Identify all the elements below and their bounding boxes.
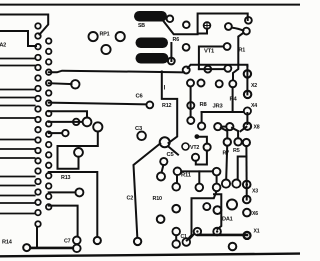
capacitor C6 pad [146, 102, 153, 109]
pad 190,105 [187, 102, 194, 109]
wire C2 long diagonal/vertical [134, 144, 161, 238]
pad 207,207 [203, 203, 210, 210]
wire staircase from C1 area [214, 194, 221, 229]
resistor R6 bar [136, 38, 169, 49]
switch SB bar [134, 11, 167, 22]
capacitor C2 pad bottom [134, 238, 141, 245]
wire R8 chain vertical [190, 87, 192, 118]
svg-text:X2: X2 [251, 83, 257, 89]
pad 228,26 [225, 23, 232, 30]
svg-text:X4: X4 [251, 103, 257, 109]
svg-text:R11: R11 [181, 173, 192, 179]
pad R5 [234, 138, 241, 145]
svg-text:JR3: JR3 [213, 104, 224, 110]
wire stub right of pad [199, 68, 224, 70]
svg-text:X8: X8 [254, 125, 260, 131]
terminal X3 bottom pad [243, 196, 251, 204]
wire diag to pad [189, 234, 194, 240]
wire top-left net [0, 15, 48, 35]
wire long horizontal net [49, 71, 184, 73]
pad 201,126 [198, 123, 205, 130]
terminal X2 bottom pad [244, 91, 251, 98]
wire module box left [162, 72, 177, 144]
svg-text:X6: X6 [252, 211, 258, 217]
wire to pad 79,192 [49, 191, 76, 193]
wire branch to R5 column [238, 157, 247, 180]
svg-text:C2: C2 [127, 196, 134, 202]
pad 248,20 [245, 17, 252, 24]
pad 246,31 [243, 28, 250, 35]
wire big horizontal 112 [202, 111, 244, 113]
wire VT1 top net [198, 14, 248, 34]
wire R13 net [49, 172, 98, 236]
terminal X2 top pad [244, 70, 251, 77]
pad 78,152 [74, 148, 83, 157]
wire left branch down [201, 112, 203, 122]
pad 232,204 [227, 200, 237, 210]
pad 232,246 [229, 243, 237, 251]
svg-text:R10: R10 [153, 196, 162, 202]
wires left edge stubs [0, 59, 36, 214]
IC DA2 right pad column [46, 38, 52, 209]
wire C1 link [175, 235, 177, 240]
wire R7 down to pad [226, 146, 227, 179]
wire link row 126 [221, 126, 226, 128]
wire below VT2 pad [196, 151, 207, 165]
svg-text:R6: R6 [173, 37, 180, 43]
wire DA1 box vertical [187, 199, 192, 241]
pad 76,122 [73, 119, 79, 125]
svg-text:R1: R1 [239, 48, 246, 54]
pad 176,208 [172, 205, 180, 213]
wire branch down [198, 171, 200, 183]
pad 186,47 [183, 44, 190, 51]
capacitor C3 pad [137, 132, 146, 141]
board bottom border [0, 254, 300, 257]
pad 219,84 [216, 80, 223, 87]
svg-text:R12: R12 [162, 103, 171, 109]
pad R14 [23, 244, 30, 251]
pad 217,210 [214, 206, 222, 214]
terminal X3 top pad [243, 181, 251, 189]
wire third pad down [245, 146, 247, 180]
wire to C6 pad [49, 103, 146, 105]
wire net to X2 top [188, 65, 248, 68]
wire zigzag from pad 98,127 [58, 132, 98, 169]
svg-text:R7: R7 [223, 151, 230, 157]
pad VT1 right [224, 43, 231, 50]
wire R4 vertical to X4 row [232, 87, 234, 112]
pad 186,242 [183, 238, 191, 246]
svg-text:X1: X1 [254, 229, 260, 235]
pad long net end [183, 67, 190, 74]
pad 226,184 [222, 180, 230, 188]
wire R6 vertical [170, 43, 172, 61]
svg-text:C7: C7 [64, 239, 71, 245]
pad right of SB [167, 15, 174, 22]
wire X4 to X8 link [246, 113, 248, 124]
pad 190,83 [187, 80, 194, 87]
pad 246,142 [243, 139, 250, 146]
capacitor C5 pad b [157, 173, 165, 181]
svg-text:X3: X3 [252, 189, 258, 195]
capacitor C7 pad bottom [73, 245, 81, 253]
capacitor C5 pad a [160, 158, 167, 165]
pad 217,231 [213, 228, 221, 236]
svg-text:R5: R5 [233, 148, 240, 154]
wire VT1 net [199, 47, 223, 70]
svg-text:C5: C5 [167, 152, 175, 158]
pad 87,122 [83, 118, 92, 127]
wire X3 link [246, 181, 248, 200]
wire C5 link [162, 165, 164, 173]
pad 161,219 [157, 215, 165, 223]
pad 199,187 [196, 184, 204, 192]
pad 201,83 [198, 80, 205, 87]
wire from dot to pad [199, 137, 207, 144]
svg-text:DA1: DA1 [222, 217, 233, 223]
pad 176,187 [172, 183, 180, 191]
svg-text:R13: R13 [61, 175, 70, 181]
wire bottom thick trace [31, 247, 73, 250]
terminal X1 pad [244, 232, 251, 239]
IC DA2 left pad column [35, 23, 41, 227]
transistor VT2 circle [182, 143, 189, 150]
wire R5 stub up [232, 128, 238, 138]
svg-text:DA2: DA2 [0, 43, 6, 49]
capacitor C7 pad top [73, 237, 81, 245]
pad 98,127 [93, 122, 102, 131]
pad R7 [224, 138, 231, 145]
svg-text:VT2: VT2 [190, 145, 199, 151]
terminal X8 pad [244, 123, 251, 130]
svg-text:C1: C1 [181, 234, 188, 240]
pad 228,68 [225, 65, 232, 72]
pad R6 bottom with cross [168, 58, 175, 65]
wire to pad 87,122 [49, 111, 87, 117]
board top border [0, 4, 300, 6]
wire to pad 65,133 [49, 132, 62, 134]
wire from IC bottom pad down [36, 227, 38, 247]
pad 75,84 [71, 80, 79, 88]
svg-text:R8: R8 [200, 102, 208, 108]
svg-text:RP1: RP1 [100, 31, 110, 37]
wire R11 vertical [176, 175, 178, 183]
trimmer RP1 pad 3 [101, 45, 110, 54]
svg-text:SB: SB [138, 23, 145, 29]
wire X2 link [246, 66, 248, 94]
capacitor C5 big pad [160, 137, 170, 147]
pad with cross 207,25 [204, 22, 211, 29]
svg-text:C6: C6 [136, 94, 144, 100]
pad 79,192 [75, 188, 83, 196]
wire C5 diagonal [168, 146, 178, 154]
wire row 122 [49, 121, 82, 123]
wire 216 vertical [216, 176, 218, 184]
wire R7 stub up [221, 128, 228, 139]
pad R13 bottom [94, 237, 101, 244]
wire DA1 box [192, 192, 217, 199]
pad 216,171 [213, 168, 221, 176]
terminal X6 pad [243, 209, 251, 217]
pad 197,231 [194, 228, 201, 235]
terminal X4 pad [244, 107, 251, 114]
capacitor C1 pad bottom [172, 240, 180, 248]
wire curve to pad 246,31 [232, 28, 244, 31]
wire X1 thick trace [198, 234, 247, 237]
pad VT2 right [204, 144, 211, 151]
pad 190,120 [187, 117, 194, 124]
wire row 171 [181, 170, 212, 172]
pad 195,157 [192, 154, 199, 161]
pad 217,126 [214, 123, 221, 130]
wire box to C7 [49, 206, 78, 237]
trimmer RP1 pad 1 [89, 32, 98, 41]
wire R1 vertical [233, 33, 244, 80]
pad node [183, 22, 190, 29]
pad R11 top [174, 168, 182, 176]
via solid dot [195, 134, 200, 139]
capacitor C1 pad top [172, 228, 180, 236]
trimmer RP1 pad 2 [116, 32, 125, 41]
pad 207,69 [204, 66, 211, 73]
pad 232,84 [229, 80, 236, 87]
svg-text:R14: R14 [2, 240, 13, 246]
pad 230,126 [226, 123, 233, 130]
pad 65,133 [62, 130, 68, 136]
wire second-left net [0, 31, 36, 46]
wire to pad 75,84 [49, 82, 72, 85]
svg-text:VT1: VT1 [204, 48, 215, 54]
pad 216,187 [213, 184, 221, 192]
resistor bar 3 [136, 53, 169, 64]
pad 236,184 [232, 180, 240, 188]
wire diag into X8 [241, 127, 247, 131]
wire SB diagonal [163, 21, 198, 35]
